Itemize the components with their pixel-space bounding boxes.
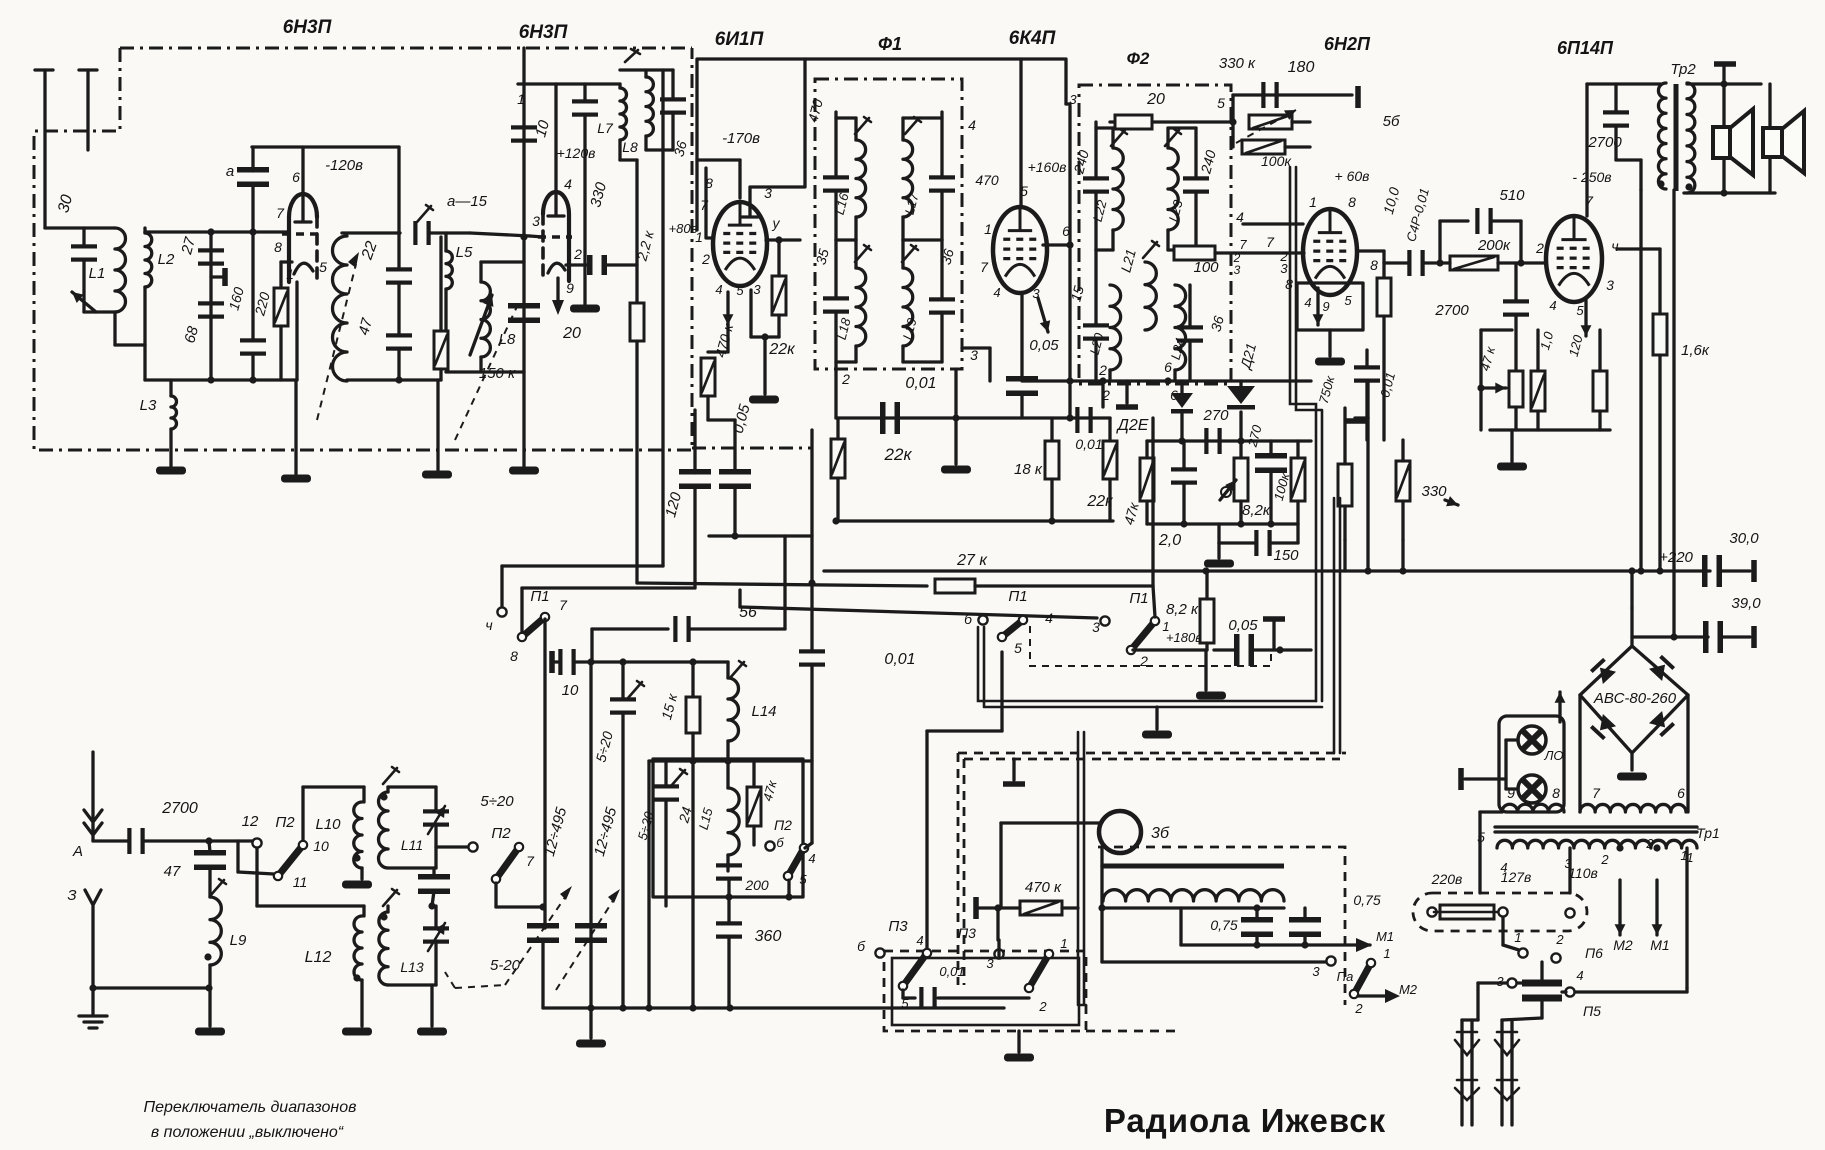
wire	[556, 82, 620, 85]
wire	[1096, 126, 1113, 129]
wire	[439, 237, 442, 331]
resistor 27к	[935, 579, 975, 593]
wire	[1017, 1031, 1020, 1052]
bridge diode 3	[1590, 714, 1616, 740]
svg-text:L9: L9	[230, 932, 247, 949]
resistor	[434, 331, 448, 369]
trimmer cap L11	[423, 809, 449, 826]
wire	[1639, 160, 1642, 190]
Тр2 secondary	[1687, 83, 1695, 193]
switch П1 lever 1	[998, 616, 1027, 641]
trimmer mark	[210, 879, 226, 896]
wire column d	[691, 761, 694, 1008]
svg-text:1: 1	[517, 91, 525, 107]
svg-text:10: 10	[313, 838, 329, 854]
wire pot loop left	[1479, 330, 1482, 430]
wire П3 column	[925, 731, 928, 953]
capacitor 120	[679, 469, 711, 489]
pilot lamp 1	[1518, 726, 1546, 754]
wire bridge box left	[1578, 695, 1581, 812]
inductor L15	[728, 788, 739, 855]
wire	[763, 337, 766, 394]
capacitor 180	[1261, 82, 1278, 108]
cathode arrow V3	[723, 292, 734, 325]
wire	[434, 787, 437, 811]
svg-text:510: 510	[1499, 187, 1525, 204]
svg-text:4: 4	[564, 176, 572, 192]
wire	[1125, 381, 1128, 403]
wire	[1480, 810, 1502, 813]
ground П3 box	[1004, 1054, 1034, 1062]
wire	[530, 236, 543, 237]
svg-text:5: 5	[736, 283, 744, 298]
svg-text:L3: L3	[140, 397, 157, 414]
svg-text:0,75: 0,75	[1353, 892, 1380, 908]
wire	[1108, 479, 1111, 521]
wire	[360, 980, 363, 1026]
svg-text:1: 1	[1309, 194, 1317, 210]
wire	[810, 665, 813, 843]
svg-text:22к: 22к	[1086, 493, 1114, 510]
wire	[693, 410, 696, 473]
wire	[836, 116, 856, 119]
wire	[236, 841, 239, 872]
adjust dashed arrow 2	[455, 300, 520, 440]
socket box V5	[1297, 283, 1363, 330]
ground L12	[342, 1028, 372, 1036]
wire	[1100, 908, 1103, 962]
inductor L1	[115, 228, 126, 312]
fuse terminal 2	[1498, 907, 1507, 916]
wire	[1101, 381, 1104, 407]
svg-text:11: 11	[293, 874, 308, 890]
wire	[583, 84, 586, 101]
pentode V4 6К4П	[993, 207, 1047, 293]
wire	[397, 233, 400, 269]
wire	[1536, 330, 1539, 371]
wire det bottom	[1147, 522, 1298, 525]
svg-text:2: 2	[701, 251, 710, 267]
capacitor 360	[716, 921, 742, 938]
wire	[1506, 738, 1518, 741]
svg-text:- 250в: - 250в	[1572, 169, 1611, 185]
svg-text:5: 5	[319, 259, 327, 275]
svg-text:М1: М1	[1650, 937, 1669, 953]
capacitor L19	[929, 297, 955, 314]
wire from П1	[1000, 652, 1003, 731]
wire	[541, 940, 544, 1008]
svg-text:2: 2	[1038, 999, 1047, 1014]
П1 contact ч	[497, 607, 506, 616]
resistor 470к	[701, 358, 715, 396]
svg-text:+180в: +180в	[1166, 630, 1202, 645]
svg-text:1,6к: 1,6к	[1681, 342, 1710, 359]
wire	[436, 380, 439, 470]
wire	[444, 233, 447, 251]
svg-text:1: 1	[286, 266, 294, 282]
wire	[1108, 418, 1111, 441]
svg-text:5: 5	[1020, 183, 1028, 199]
inductor L20	[1110, 285, 1121, 370]
wire	[1506, 787, 1518, 790]
wire AGC bus	[836, 416, 1110, 419]
wire	[671, 113, 674, 150]
ground	[422, 471, 452, 479]
svg-text:1: 1	[984, 221, 992, 237]
svg-text:3: 3	[1092, 619, 1100, 635]
svg-text:4: 4	[1576, 968, 1583, 983]
wire pot loop top	[1481, 328, 1512, 331]
capacitor	[799, 649, 825, 666]
svg-text:П2: П2	[774, 817, 792, 833]
wire det row	[1147, 439, 1311, 442]
wire	[940, 240, 943, 299]
fuse terminal 1	[1427, 907, 1436, 916]
wire	[362, 787, 365, 802]
switch П1 lever 0	[518, 613, 549, 641]
adjust dashed arrow	[317, 264, 356, 420]
shield loop П1 inner	[1030, 626, 1271, 666]
wire	[1630, 753, 1633, 770]
wire	[940, 112, 943, 177]
wire	[1182, 441, 1185, 469]
inductor L8 variable	[481, 282, 490, 357]
svg-text:1: 1	[1383, 946, 1390, 961]
wire	[1155, 707, 1158, 729]
wire to V5 grid	[1215, 251, 1304, 254]
capacitor 30,0	[1702, 555, 1722, 587]
М1 arrow head	[1356, 938, 1372, 952]
wire	[927, 729, 1002, 732]
resistor 330	[1396, 461, 1410, 501]
svg-text:5: 5	[799, 872, 807, 887]
ground L10	[342, 881, 372, 889]
wire	[209, 841, 210, 852]
resistor 120	[1593, 371, 1607, 411]
wire speaker feed 1	[1722, 84, 1725, 193]
wire	[805, 843, 812, 848]
svg-text:L7: L7	[597, 120, 614, 136]
svg-text:2: 2	[1101, 387, 1110, 403]
svg-text:3: 3	[986, 956, 994, 971]
svg-text:L13: L13	[400, 959, 424, 975]
ground under L3	[156, 467, 186, 475]
switch П3 lever a	[899, 949, 931, 990]
terminal 10	[549, 651, 555, 673]
wire	[1401, 540, 1404, 571]
capacitor 270a	[1204, 428, 1221, 454]
wire	[1440, 219, 1468, 222]
svg-text:0,01: 0,01	[939, 964, 964, 979]
wire	[1050, 418, 1053, 441]
wire	[522, 586, 695, 589]
wire plate V6	[1585, 84, 1588, 216]
wire plate load top	[635, 160, 638, 303]
wire to V6 grid	[1498, 261, 1546, 264]
wire	[1094, 250, 1097, 325]
svg-text:2: 2	[1645, 836, 1654, 851]
wire cathode lead	[295, 282, 298, 380]
switch П2 lever c	[784, 844, 808, 880]
wire	[644, 70, 647, 77]
dot Тр2 a	[1657, 180, 1664, 187]
wire	[1384, 261, 1408, 264]
inductor L23	[1168, 148, 1178, 230]
svg-text:П1: П1	[1008, 588, 1027, 605]
wire	[1343, 506, 1346, 540]
wire	[836, 238, 856, 241]
wire	[362, 906, 365, 916]
П2b contact	[468, 842, 477, 851]
svg-text:L11: L11	[401, 837, 423, 853]
trimmer mark	[1143, 241, 1159, 258]
capacitor L20	[1083, 323, 1109, 340]
wire L1 bottom	[84, 310, 115, 313]
capacitor L18	[823, 296, 849, 313]
switch Па lever	[1350, 959, 1375, 998]
svg-text:1: 1	[1514, 930, 1521, 945]
pot arrow	[1236, 110, 1296, 143]
wire bridge box right	[1686, 695, 1689, 812]
М2 arrow	[1358, 994, 1390, 997]
wire	[1205, 571, 1208, 599]
wire	[1296, 441, 1299, 458]
wire	[303, 785, 364, 788]
inductor L22	[1113, 148, 1123, 230]
wire	[1217, 543, 1220, 558]
wire	[1194, 128, 1197, 178]
capacitor L16	[823, 175, 849, 192]
svg-text:+120в: +120в	[557, 145, 596, 161]
svg-text:3б: 3б	[1151, 825, 1170, 842]
wire	[1598, 330, 1601, 371]
wire	[1514, 263, 1517, 300]
resistor 100	[1174, 246, 1215, 260]
trimmer 5÷20 b	[653, 784, 679, 801]
wire	[1179, 908, 1182, 945]
trimmer mark	[671, 769, 687, 786]
cathode arrow V2	[556, 278, 559, 303]
svg-text:0,01: 0,01	[884, 651, 915, 668]
field winding coil	[1103, 890, 1284, 901]
wire	[1173, 370, 1176, 381]
wire	[903, 238, 942, 241]
wire	[954, 418, 957, 464]
wire bus 2	[1632, 635, 1708, 638]
П1 contact б	[978, 615, 987, 624]
wire	[494, 883, 497, 907]
wire	[143, 228, 146, 233]
wire	[386, 983, 389, 986]
wire	[1133, 648, 1207, 651]
svg-text:1: 1	[695, 229, 703, 245]
wire	[1100, 866, 1103, 908]
trimmer mark L7	[625, 49, 640, 62]
triode V1 6Н3П-a	[282, 147, 318, 282]
svg-text:10: 10	[562, 682, 579, 699]
wire	[481, 260, 524, 263]
wire	[1366, 381, 1369, 418]
svg-text:47: 47	[164, 863, 181, 880]
wire	[1094, 192, 1097, 250]
wire	[386, 787, 389, 792]
wire	[1012, 759, 1015, 780]
wire plate	[738, 160, 741, 198]
svg-text:1: 1	[1686, 850, 1693, 865]
wire	[583, 115, 586, 304]
svg-text:8,2 к: 8,2 к	[1166, 601, 1199, 618]
capacitor coupling	[587, 255, 607, 275]
wire column b	[647, 761, 650, 1008]
capacitor 2700 b	[1503, 299, 1529, 316]
wire	[479, 357, 482, 372]
wire	[281, 260, 292, 263]
wire	[434, 825, 437, 868]
terminal	[1003, 781, 1025, 787]
variable capacitor 12÷495 a	[527, 923, 559, 943]
svg-text:8: 8	[1552, 785, 1560, 801]
svg-text:б: б	[964, 611, 973, 627]
wire	[360, 868, 363, 879]
wire	[1355, 416, 1368, 419]
inductor L13	[379, 912, 388, 985]
wire	[555, 660, 560, 663]
svg-text:L2: L2	[158, 251, 175, 268]
wire	[1219, 541, 1254, 544]
capacitor 0,01 b	[880, 402, 900, 434]
wire	[113, 312, 116, 345]
shield loop П1 outer	[978, 627, 1322, 707]
wire	[1685, 988, 1688, 992]
triode V2 6Н3П-b	[538, 84, 572, 281]
heptode V3 6И1П	[713, 202, 767, 286]
oscillator coil 22	[333, 236, 348, 381]
svg-text:А: А	[72, 843, 83, 860]
svg-text:П1: П1	[1129, 590, 1148, 607]
resistor 18к	[1045, 441, 1059, 479]
wire	[1217, 524, 1220, 543]
capacitor 47	[194, 850, 226, 870]
svg-text:L14: L14	[751, 703, 776, 720]
П5 contact 3	[1507, 978, 1516, 987]
terminal 30	[1751, 560, 1757, 582]
svg-text:200к: 200к	[1477, 237, 1511, 254]
wire	[834, 240, 837, 298]
svg-text:39,0: 39,0	[1731, 595, 1761, 612]
capacitor 10b	[558, 649, 575, 675]
wire	[979, 906, 998, 909]
pot arrow 270	[1220, 480, 1236, 500]
svg-text:470: 470	[975, 172, 999, 188]
wire grid of V1	[211, 230, 289, 233]
svg-text:П6: П6	[1585, 945, 1603, 961]
wire plate V4	[1019, 59, 1022, 207]
wire	[644, 136, 647, 150]
svg-text:127в: 127в	[1501, 869, 1532, 885]
wire	[397, 349, 400, 380]
terminal 39	[1751, 626, 1757, 648]
wire	[1365, 381, 1368, 440]
svg-text:ч: ч	[485, 617, 492, 633]
wire	[726, 761, 729, 788]
svg-text:П5: П5	[1583, 1003, 1601, 1019]
capacitor 68	[198, 301, 224, 318]
wire	[1239, 501, 1242, 524]
shield pair vertical	[1290, 167, 1322, 701]
wire	[901, 118, 904, 140]
wire	[432, 868, 435, 877]
capacitor 150	[1254, 530, 1271, 556]
svg-text:2: 2	[1555, 932, 1564, 947]
wire	[1111, 230, 1114, 250]
inductor L9	[210, 897, 221, 965]
wire	[1617, 247, 1660, 250]
wire	[1094, 122, 1097, 178]
svg-text:9: 9	[566, 280, 574, 296]
resistor 47к c	[1509, 371, 1523, 407]
resistor 15к	[686, 697, 700, 733]
bridge diode 4	[1649, 711, 1675, 737]
trimmer mark	[383, 889, 399, 906]
svg-text:П2: П2	[275, 814, 295, 831]
svg-text:L1: L1	[89, 265, 106, 282]
wire L3 top	[169, 380, 172, 396]
wire	[1382, 316, 1385, 440]
svg-text:Радиола Ижевск: Радиола Ижевск	[1104, 1102, 1386, 1139]
wire	[575, 660, 591, 663]
wire	[1100, 847, 1103, 866]
wire	[962, 346, 990, 349]
wire	[903, 116, 942, 119]
wire	[144, 839, 253, 842]
wire	[388, 866, 436, 869]
wire	[1094, 339, 1097, 381]
svg-text:18 к: 18 к	[1014, 461, 1043, 478]
wire	[1722, 67, 1725, 84]
wire	[397, 147, 400, 233]
wire	[738, 590, 741, 607]
svg-text:5б: 5б	[1383, 113, 1400, 130]
wire	[708, 350, 728, 353]
wire	[1001, 821, 1100, 824]
resistor 270	[1234, 458, 1248, 501]
wire top of tuning	[591, 660, 728, 663]
wire	[520, 588, 523, 632]
capacitor L24	[1177, 325, 1203, 342]
svg-text:+220: +220	[1659, 549, 1693, 566]
wire osc top	[342, 231, 400, 234]
dashed box Ф2	[1079, 85, 1231, 384]
trimmer mark	[905, 117, 921, 134]
ground L13	[417, 1028, 447, 1036]
tap arrow	[1481, 383, 1506, 394]
wire	[1630, 571, 1633, 608]
wire L3 to ground	[169, 429, 172, 466]
wire AGC riser	[1068, 106, 1071, 418]
capacitor 100к cap	[1255, 453, 1287, 473]
wire	[1239, 412, 1242, 441]
wire	[1050, 479, 1053, 521]
wire	[854, 240, 857, 268]
wire cap column	[209, 232, 212, 380]
diode Д2Е b	[1227, 386, 1255, 410]
wire	[1254, 648, 1311, 651]
svg-text:6Н2П: 6Н2П	[1324, 34, 1371, 54]
svg-text:6И1П: 6И1П	[715, 29, 764, 50]
wire	[646, 148, 673, 151]
inductor L8b	[646, 77, 653, 136]
Тр1 winding a	[1502, 804, 1564, 812]
